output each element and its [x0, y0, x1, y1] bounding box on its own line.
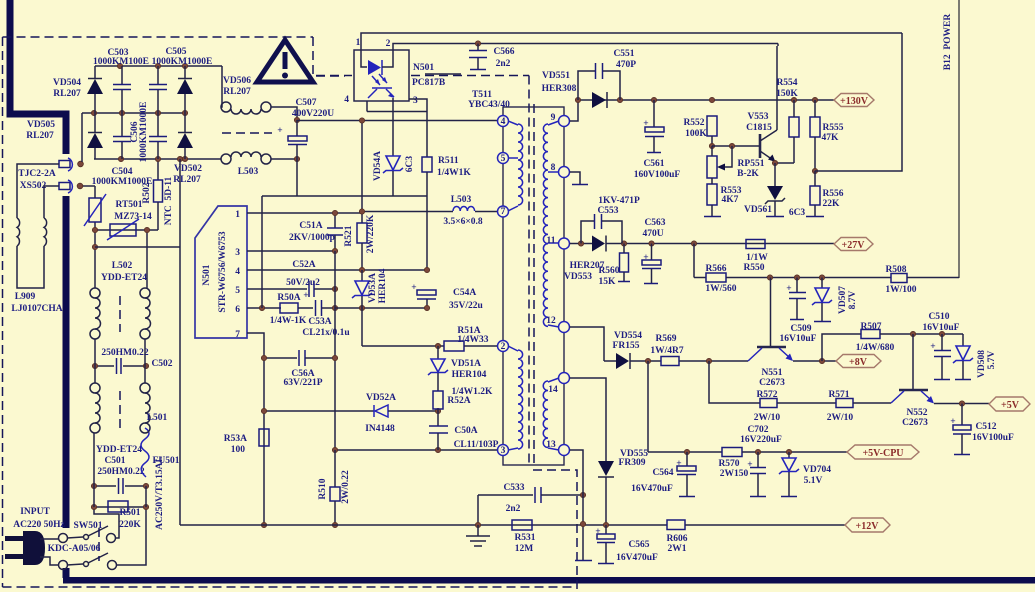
svg-text:C51A: C51A	[299, 221, 322, 231]
transformer core dash 2	[533, 104, 535, 465]
pin 9 terminal	[559, 116, 570, 127]
capacitor C51A	[334, 213, 336, 228]
svg-text:13: 13	[546, 440, 556, 450]
svg-text:1000KM1000E: 1000KM1000E	[92, 177, 153, 187]
svg-text:8: 8	[551, 163, 556, 173]
switch SW501	[59, 534, 68, 543]
resistor R521	[361, 121, 363, 223]
svg-text:R550: R550	[743, 263, 764, 273]
svg-text:2W/0.22: 2W/0.22	[341, 470, 351, 504]
svg-text:7: 7	[501, 207, 506, 217]
svg-text:INPUT: INPUT	[20, 507, 50, 517]
svg-text:C566: C566	[493, 47, 514, 57]
svg-text:16V10uF: 16V10uF	[780, 334, 817, 344]
svg-text:R569: R569	[655, 334, 676, 344]
capacitor C533	[478, 494, 533, 496]
B+ bus y120	[297, 120, 497, 122]
svg-text:VD502: VD502	[174, 164, 202, 174]
wire switch top to R501 left	[94, 507, 119, 538]
svg-text:C533: C533	[503, 483, 524, 493]
choke L501	[90, 383, 100, 393]
svg-text:1/4W33: 1/4W33	[457, 335, 488, 345]
resistor R566	[694, 277, 706, 279]
svg-text:100K: 100K	[685, 129, 707, 139]
pin 12 terminal	[559, 322, 570, 333]
svg-text:VD506: VD506	[223, 76, 251, 86]
wire connector2 to L909	[44, 186, 59, 218]
svg-text:C2673: C2673	[759, 378, 785, 388]
wire plug to switch lower	[40, 557, 58, 565]
resistor R570	[722, 448, 742, 457]
svg-text:C510: C510	[928, 312, 949, 322]
transformer T511 frame	[503, 107, 564, 465]
svg-text:VD504: VD504	[53, 78, 81, 88]
svg-text:1/4W/680: 1/4W/680	[856, 343, 895, 353]
pin 3 terminal	[498, 445, 509, 456]
svg-text:1: 1	[356, 38, 361, 48]
diode VD553	[592, 236, 605, 252]
svg-text:16V220uF: 16V220uF	[740, 435, 782, 445]
diode VD555	[598, 461, 614, 476]
primary ground row y525	[180, 524, 667, 526]
svg-text:1000KM100E: 1000KM100E	[93, 57, 149, 67]
5V row	[934, 403, 989, 405]
svg-text:1/1W: 1/1W	[746, 253, 768, 263]
svg-text:C502: C502	[151, 359, 172, 369]
svg-text:16V470uF: 16V470uF	[616, 553, 658, 563]
wire connector1 to L909	[17, 164, 59, 218]
transformer core dash 1	[528, 76, 530, 466]
bridge top bus	[95, 65, 222, 67]
diode VD505	[94, 113, 96, 132]
svg-text:R571: R571	[828, 390, 849, 400]
svg-text:2W1: 2W1	[668, 544, 687, 554]
svg-text:R560: R560	[598, 266, 619, 276]
svg-text:5: 5	[235, 286, 240, 296]
resistor R53A	[259, 429, 269, 446]
tag +27V	[834, 238, 873, 251]
svg-text:R552: R552	[683, 118, 704, 128]
svg-text:C2673: C2673	[902, 418, 928, 428]
tag +8V	[836, 355, 881, 368]
svg-text:+5V: +5V	[1001, 400, 1020, 411]
drain row with L503	[362, 211, 453, 213]
base divider R572 R571	[709, 361, 760, 403]
C509 rail dots	[767, 275, 772, 280]
svg-text:R508: R508	[885, 265, 906, 275]
varistor row	[95, 229, 158, 231]
svg-text:AC250V/T3.15AL: AC250V/T3.15AL	[155, 456, 165, 530]
pin 2 terminal	[498, 341, 509, 352]
capacitor C702	[757, 452, 759, 467]
diode VD504	[94, 66, 96, 78]
tag +130V	[834, 94, 874, 107]
svg-text:B12 POWER: B12 POWER	[943, 14, 953, 71]
filter choke L503 top	[221, 102, 231, 112]
svg-text:1000KM1000E: 1000KM1000E	[139, 102, 149, 163]
opto emitter to snubber zener VD54A	[392, 98, 394, 156]
resistor R502 NTC	[157, 160, 159, 180]
svg-text:TJC2-2A: TJC2-2A	[18, 169, 56, 179]
transistor V553	[759, 134, 762, 158]
capacitor C501	[94, 485, 116, 487]
svg-text:VD505: VD505	[27, 120, 55, 130]
capacitor C553	[581, 221, 594, 244]
feedback row y450	[335, 449, 497, 451]
svg-text:4: 4	[344, 95, 349, 105]
source row y308 right part	[335, 307, 427, 309]
svg-text:L502: L502	[112, 261, 133, 271]
pin 5 terminal	[498, 153, 509, 164]
secondary winding bottom	[543, 381, 548, 448]
svg-text:50V/2u2: 50V/2u2	[286, 278, 320, 288]
svg-text:N501: N501	[413, 63, 434, 73]
svg-text:R507: R507	[860, 322, 881, 332]
svg-text:L503: L503	[238, 167, 259, 177]
wire switch bottom to fuse column	[117, 507, 147, 565]
dashed isolation jog	[533, 470, 577, 592]
secondary winding top	[543, 124, 548, 326]
svg-text:CL11/103P: CL11/103P	[454, 440, 499, 450]
svg-text:R531: R531	[514, 533, 535, 543]
svg-text:IN4148: IN4148	[365, 424, 395, 434]
svg-text:VD508: VD508	[977, 350, 987, 378]
svg-text:YDD-ET24: YDD-ET24	[101, 273, 147, 283]
resistor R510	[334, 450, 336, 487]
svg-text:1000KM1000E: 1000KM1000E	[152, 57, 213, 67]
tag +12V	[845, 518, 890, 532]
svg-text:4K7: 4K7	[722, 195, 739, 205]
primary return line	[179, 159, 181, 525]
svg-text:R50A: R50A	[277, 293, 300, 303]
svg-text:C507: C507	[295, 98, 316, 108]
svg-text:250HM0.22: 250HM0.22	[101, 348, 148, 358]
svg-text:12: 12	[546, 316, 556, 326]
vertical feedback rail x335	[334, 251, 336, 450]
svg-text:6C3: 6C3	[405, 156, 415, 173]
vertical x362 between rows	[361, 270, 363, 281]
svg-text:9: 9	[551, 113, 556, 123]
AC plug	[5, 536, 23, 541]
dashed border top	[3, 36, 314, 38]
svg-text:RL207: RL207	[173, 175, 201, 185]
fuse FU501	[141, 428, 149, 477]
svg-text:C509: C509	[790, 324, 811, 334]
svg-text:15K: 15K	[599, 277, 617, 287]
svg-text:C504: C504	[111, 167, 132, 177]
resistor R508	[891, 274, 907, 283]
svg-text:C54A: C54A	[453, 288, 476, 298]
resistor R52A	[433, 391, 443, 409]
svg-text:6C3: 6C3	[789, 208, 806, 218]
svg-text:R572: R572	[756, 390, 777, 400]
vertical opto rail x262	[261, 196, 263, 308]
svg-text:2: 2	[501, 342, 506, 352]
svg-text:+5V-CPU: +5V-CPU	[862, 448, 903, 459]
svg-text:+130V: +130V	[840, 96, 869, 107]
wires L502 to C502 to L501	[94, 339, 96, 366]
svg-text:R556: R556	[822, 189, 843, 199]
opto feedback bus pin1	[361, 33, 902, 50]
capacitor C512	[961, 404, 963, 426]
capacitor C506	[157, 113, 159, 136]
svg-text:7: 7	[235, 330, 240, 340]
resistor R606	[667, 520, 685, 530]
svg-text:FR309: FR309	[619, 458, 646, 468]
svg-text:100: 100	[231, 445, 246, 455]
opto LED	[361, 50, 367, 67]
opto pin4 leg	[366, 101, 368, 112]
capacitor C507	[294, 117, 299, 122]
capacitor C502	[95, 365, 114, 367]
pin13 wire to cold ground	[570, 450, 584, 560]
capacitor C503	[121, 66, 123, 84]
capacitor C53A	[315, 300, 317, 316]
svg-text:2W/10: 2W/10	[754, 413, 781, 423]
opto light arrows	[372, 76, 380, 85]
svg-text:C561: C561	[643, 159, 664, 169]
svg-text:2W/220K: 2W/220K	[366, 214, 376, 253]
wire pin9 riser	[570, 100, 579, 121]
bridge bottom bus	[94, 158, 221, 160]
capacitor C565	[605, 525, 607, 534]
svg-text:VD554: VD554	[614, 331, 642, 341]
svg-text:250HM0.22: 250HM0.22	[97, 467, 144, 477]
resistor R50A	[259, 305, 264, 310]
svg-text:2W/10: 2W/10	[827, 413, 854, 423]
svg-text:+: +	[747, 460, 752, 470]
svg-text:35V/22u: 35V/22u	[449, 301, 484, 311]
svg-text:L503: L503	[451, 195, 472, 205]
connector XS502 pin1	[59, 161, 70, 168]
svg-text:L909: L909	[15, 292, 36, 302]
wire connector1 up to mid bus	[81, 113, 83, 162]
resistor R501	[94, 506, 146, 508]
svg-text:C702: C702	[747, 425, 768, 435]
capacitor C505	[157, 66, 159, 84]
svg-text:C563: C563	[644, 218, 665, 228]
wire to R566 row	[693, 244, 695, 278]
svg-text:VD507: VD507	[838, 286, 848, 314]
connector XS502 pin2	[59, 183, 70, 190]
zener VD508	[962, 334, 964, 346]
svg-text:3: 3	[235, 248, 240, 258]
svg-text:C505: C505	[165, 47, 186, 57]
thick bottom bar	[63, 577, 1035, 584]
wire pin14 to VD555	[570, 378, 607, 461]
130V bus	[578, 99, 834, 101]
warning triangle	[257, 40, 313, 82]
pin 7 terminal	[498, 206, 509, 217]
tag +5V	[989, 397, 1030, 411]
svg-text:MZ73-14: MZ73-14	[114, 212, 152, 222]
svg-text:3: 3	[413, 96, 418, 106]
diode VD502	[184, 113, 186, 132]
pin 14 terminal	[559, 373, 570, 384]
thick chassis line mid	[63, 196, 70, 528]
svg-text:1KV-471P: 1KV-471P	[598, 196, 640, 206]
capacitor C56A	[264, 357, 297, 359]
zener VD54A	[386, 156, 400, 170]
svg-text:PC817B: PC817B	[412, 78, 446, 88]
svg-text:N552: N552	[906, 408, 927, 418]
resistor R554	[789, 117, 799, 137]
capacitor C566	[475, 41, 480, 46]
svg-text:RL207: RL207	[53, 89, 81, 99]
svg-text:8.7V: 8.7V	[848, 291, 858, 310]
svg-text:400V220U: 400V220U	[292, 109, 334, 119]
svg-text:KDC-A05/06: KDC-A05/06	[48, 544, 101, 554]
svg-text:RP551: RP551	[738, 159, 765, 169]
svg-text:+: +	[595, 527, 600, 537]
svg-text:VD704: VD704	[803, 465, 831, 475]
svg-text:12M: 12M	[515, 544, 534, 554]
dashed border left	[2, 37, 4, 587]
wire L501 left to C501	[93, 433, 95, 486]
svg-text:1/4W-1K: 1/4W-1K	[270, 316, 307, 326]
svg-text:63V/221P: 63V/221P	[283, 378, 322, 388]
svg-text:C564: C564	[652, 468, 673, 478]
diode VD551	[592, 92, 606, 108]
svg-text:2W150: 2W150	[720, 469, 749, 479]
feedback wire to opto bus	[815, 33, 902, 171]
dashed isolation line to transformer	[316, 75, 352, 77]
pin 11 terminal	[559, 238, 570, 249]
svg-text:R511: R511	[438, 156, 459, 166]
svg-text:16V470uF: 16V470uF	[631, 484, 673, 494]
thick chassis line left	[10, 0, 66, 154]
capacitor C50A	[429, 425, 448, 427]
svg-text:YBC43/40: YBC43/40	[468, 100, 510, 110]
svg-text:R501: R501	[119, 508, 140, 518]
svg-text:STR-W6756/W6753: STR-W6756/W6753	[218, 231, 228, 313]
svg-text:C565: C565	[628, 540, 649, 550]
svg-text:XS502: XS502	[20, 181, 47, 191]
zener VD53A	[355, 281, 369, 295]
capacitor C510	[941, 334, 943, 350]
wire C507 minus down to gate row	[296, 159, 298, 196]
zener VD507	[821, 278, 823, 289]
snubber top bar	[367, 111, 427, 113]
svg-text:R606: R606	[666, 534, 687, 544]
svg-text:470U: 470U	[642, 229, 663, 239]
svg-text:2n2: 2n2	[506, 504, 521, 514]
svg-text:FR155: FR155	[613, 341, 640, 351]
choke L502	[90, 288, 100, 298]
svg-text:R570: R570	[718, 459, 739, 469]
wire RT bottom row to return line	[95, 246, 180, 248]
svg-text:B-2K: B-2K	[737, 169, 759, 179]
resistor R511	[422, 157, 432, 172]
resistor R531	[512, 520, 532, 530]
pin 8 terminal	[559, 167, 570, 178]
svg-text:R566: R566	[705, 264, 726, 274]
svg-text:VD561: VD561	[744, 205, 772, 215]
emitter node row	[775, 162, 794, 164]
svg-text:R521: R521	[344, 225, 354, 246]
svg-text:16V10uF: 16V10uF	[923, 323, 960, 333]
svg-text:3.5×6×0.8: 3.5×6×0.8	[443, 217, 483, 227]
svg-text:5.1V: 5.1V	[804, 476, 823, 486]
page border line right	[958, 0, 960, 278]
primary winding bottom	[518, 350, 523, 449]
svg-text:T511: T511	[472, 90, 492, 100]
opto phototransistor	[372, 87, 392, 89]
svg-text:5: 5	[501, 154, 506, 164]
opto pin3 leg	[409, 99, 427, 157]
svg-text:C52A: C52A	[292, 260, 315, 270]
tag +5V-CPU	[847, 445, 919, 459]
zener VD51A	[437, 346, 439, 359]
filter choke L503 bottom	[221, 154, 231, 164]
svg-text:C50A: C50A	[454, 426, 477, 436]
svg-text:VD54A: VD54A	[373, 151, 383, 181]
svg-text:R53A: R53A	[224, 434, 247, 444]
resistor R550	[746, 240, 765, 249]
svg-text:C53A: C53A	[308, 317, 331, 327]
wire 8V node down to 5V-CPU row	[647, 361, 649, 452]
svg-text:+27V: +27V	[842, 240, 866, 251]
svg-text:160V100uF: 160V100uF	[634, 170, 681, 180]
resistor R552	[707, 116, 717, 136]
svg-text:14: 14	[548, 385, 558, 395]
dashed corner at triangle	[313, 37, 345, 76]
5V-CPU row	[648, 451, 722, 453]
svg-text:4: 4	[235, 267, 240, 277]
svg-text:16V100uF: 16V100uF	[972, 433, 1014, 443]
svg-text:C1815: C1815	[746, 123, 772, 133]
resistor R51A row	[362, 345, 444, 347]
svg-text:L501: L501	[147, 413, 168, 423]
zener VD704	[788, 452, 790, 458]
svg-text:11: 11	[547, 236, 556, 246]
svg-text:N501: N501	[202, 264, 212, 285]
svg-text:+12V: +12V	[856, 521, 880, 532]
svg-text:22K: 22K	[823, 199, 841, 209]
capacitor C563	[651, 244, 653, 261]
svg-text:220K: 220K	[119, 520, 141, 530]
thermistor RT501	[94, 222, 96, 247]
svg-text:150K: 150K	[776, 89, 798, 99]
pin 4 terminal	[498, 116, 509, 127]
capacitor C561	[653, 100, 655, 127]
svg-text:1: 1	[235, 210, 240, 220]
svg-text:2KV/1000p: 2KV/1000p	[289, 233, 335, 243]
svg-text:V553: V553	[747, 112, 768, 122]
diode VD506 top right	[184, 66, 186, 78]
gate return row y196	[262, 195, 427, 197]
svg-text:470P: 470P	[616, 60, 636, 70]
svg-text:+: +	[277, 126, 282, 136]
ground symbol	[477, 525, 479, 536]
wire choke bottom to C507	[271, 158, 297, 160]
svg-text:VD51A: VD51A	[451, 359, 481, 369]
svg-text:C512: C512	[975, 422, 996, 432]
capacitor C504	[121, 113, 123, 136]
transistor N551 base line	[770, 278, 772, 348]
optocoupler N501 PC817B box	[354, 50, 409, 101]
bridge mid bus	[82, 112, 185, 114]
svg-text:1W/100: 1W/100	[885, 285, 916, 295]
svg-text:N551: N551	[761, 368, 782, 378]
svg-text:C553: C553	[597, 206, 618, 216]
svg-text:+: +	[303, 291, 308, 301]
svg-text:R510: R510	[318, 478, 328, 499]
capacitor C509	[796, 278, 798, 293]
diode VD52A row	[264, 410, 374, 412]
svg-text:2: 2	[386, 39, 391, 49]
primary winding top	[518, 124, 523, 205]
